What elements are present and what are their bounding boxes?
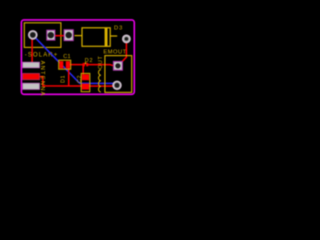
diode D2 cathode mark — [85, 62, 86, 64]
antenna pad bar1 — [23, 62, 40, 68]
board outline (Edge.Cuts) — [21, 20, 134, 94]
svg-text:C1: C1 — [63, 54, 71, 60]
wire: blue trace pad1 diagonal to bottom then to EMOUT pin2 — [34, 36, 116, 83]
pad D3-2 (round through-hole) — [123, 35, 131, 43]
connector EMOUT silkscreen box — [105, 56, 132, 93]
wire: red trace C1 right pad to D2 — [70, 64, 84, 66]
capacitor C1 pads — [59, 61, 63, 68]
wire: red trace pad2 to pad3 — [54, 35, 65, 37]
svg-text:D1: D1 — [60, 75, 66, 83]
diode D3 body silkscreen — [82, 28, 110, 47]
diode D2 pads — [83, 63, 85, 66]
svg-text:ANTENNA: ANTENNA — [39, 61, 45, 97]
pad D3-1 (square through-hole) — [64, 30, 73, 41]
wire: red trace from bar2 down and right (main bottom trace to EMOUT pin2) — [40, 77, 116, 87]
diode D3 cathode band — [105, 28, 108, 47]
wire: red trace D2 to EMOUT pin1 — [88, 65, 114, 66]
wire: red trace from pad1 down to antenna bar2 — [31, 37, 33, 63]
wire: red trace C1 right pad down to main bottom trace — [68, 68, 70, 87]
pad EMOUT-2 (round through-hole) — [113, 81, 121, 89]
wire: red branch down to C2 top pad — [82, 65, 84, 75]
antenna pad bar2 (red) — [23, 73, 40, 79]
pad SOLAR-2 (square through-hole) — [47, 30, 55, 40]
diode D3 right lead — [110, 35, 117, 37]
capacitor C1 silkscreen — [59, 60, 71, 69]
antenna pad bar3 — [23, 83, 40, 89]
capacitor C2 silkscreen — [81, 73, 90, 91]
connector SOLAR silkscreen box — [24, 23, 61, 48]
pad SOLAR-1 (round through-hole) — [29, 31, 38, 40]
EMOUT bumpy silk line — [99, 70, 101, 92]
wire: red trace D3 pad down to EMOUT pin1 — [119, 43, 127, 66]
diode D3 left lead — [75, 35, 83, 37]
pad EMOUT-1 (square through-hole) — [113, 61, 122, 70]
capacitor C2 pads — [82, 74, 89, 80]
svg-text:D3: D3 — [114, 26, 123, 32]
svg-text:D2: D2 — [85, 58, 94, 64]
svg-text:EMOUT: EMOUT — [103, 50, 126, 56]
svg-text:OUT: OUT — [98, 56, 104, 69]
